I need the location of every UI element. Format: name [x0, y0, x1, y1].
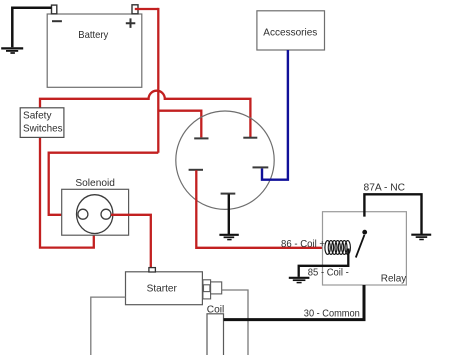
wire safety switches to ignition (with hop)	[40, 91, 250, 137]
ground G2 (ignition switch)	[219, 235, 238, 240]
ignition terminal tick top-right	[243, 137, 257, 139]
wire accessories to ignition right terminal (blue)	[262, 50, 288, 180]
solenoid right post	[101, 209, 111, 219]
wire battery negative to ground	[12, 8, 51, 47]
ignition terminal tick mid-left	[189, 169, 203, 171]
relay switch arm	[356, 235, 365, 258]
wire starter case to chassis (left)	[91, 297, 126, 355]
starter box	[126, 272, 203, 305]
solenoid body circle	[77, 195, 113, 234]
svg-text:30 - Common: 30 - Common	[304, 309, 360, 320]
ignition terminal tick right	[253, 166, 269, 168]
svg-text:Battery: Battery	[78, 30, 109, 41]
svg-text:86 - Coil +: 86 - Coil +	[281, 239, 325, 250]
svg-text:Coil: Coil	[207, 304, 225, 315]
wire starter side terminal down (right)	[222, 290, 248, 355]
wire vertical feed from battery positive	[157, 8, 159, 153]
wire branch to ignition switch terminal B	[158, 111, 201, 138]
starter top terminal	[149, 268, 156, 272]
svg-text:Safety: Safety	[23, 110, 52, 121]
wire ignition mid-left terminal to relay coil 86	[196, 170, 325, 248]
relay box	[323, 212, 407, 285]
wire solenoid right terminal to starter	[111, 215, 151, 268]
battery BT1	[47, 14, 142, 87]
starter side terminal block A	[203, 280, 211, 299]
wire safety switches to solenoid bottom	[40, 137, 94, 247]
ground G3 (relay 87A)	[411, 235, 431, 240]
solenoid left post	[78, 209, 88, 219]
wire relay 30 common to ignition coil	[224, 285, 364, 320]
ignition terminal tick bottom	[221, 193, 236, 195]
wire relay coil 85 to ground	[299, 249, 349, 277]
wire ignition bottom terminal to ground	[228, 194, 230, 234]
svg-text:Starter: Starter	[147, 284, 178, 295]
ignition switch body	[176, 111, 274, 209]
wire feed to solenoid left terminal	[49, 153, 159, 215]
safety switches box	[20, 108, 64, 138]
relay coil winding	[325, 241, 351, 255]
svg-text:87A - NC: 87A - NC	[364, 183, 406, 194]
ground G1 (battery)	[1, 48, 23, 53]
relay switch pivot	[362, 230, 367, 235]
battery positive terminal	[132, 5, 138, 14]
svg-text:Solenoid: Solenoid	[75, 178, 115, 189]
svg-text:Relay: Relay	[381, 273, 407, 284]
starter side terminal inner square	[204, 285, 210, 292]
accessories box	[257, 11, 325, 50]
starter side terminal block B	[211, 282, 222, 294]
relay 87A lead inside	[364, 194, 421, 234]
wire battery positive to vertical feed	[135, 8, 159, 10]
svg-text:85 - Coil -: 85 - Coil -	[308, 267, 349, 278]
svg-text:Switches: Switches	[23, 123, 63, 134]
svg-text:Accessories: Accessories	[263, 28, 317, 39]
solenoid box	[62, 189, 129, 235]
battery minus sign	[52, 20, 62, 22]
battery negative terminal	[52, 5, 57, 14]
battery plus sign	[126, 18, 136, 28]
ignition terminal tick top-left	[194, 137, 208, 139]
ignition coil box	[207, 314, 224, 355]
ground G4 (relay coil 85)	[289, 278, 310, 283]
